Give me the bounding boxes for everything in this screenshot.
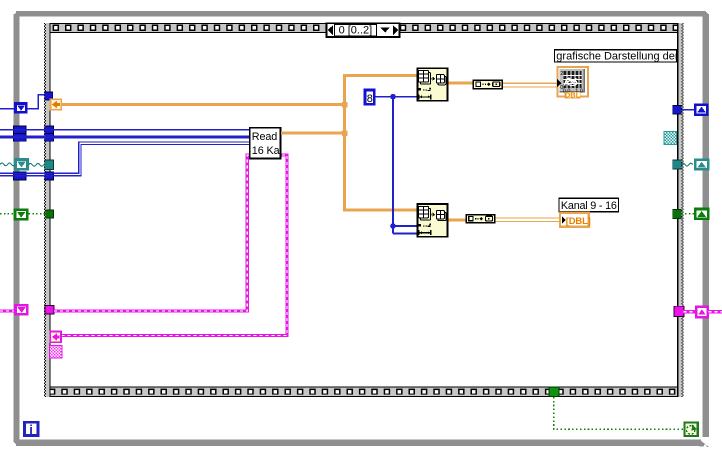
shift register teal left (down arrow): [15, 160, 27, 170]
wire teal wavy tunnel to shift register: [681, 163, 692, 166]
sequence structure bottom border (film strip): [44, 387, 684, 397]
tunnel blue top-left on sequence border: [45, 92, 53, 100]
wire orange double converter 2 to DBL indicator: [496, 217, 560, 219]
tunnel blue pair on loop border: [14, 126, 26, 134]
junction blue upper: [390, 94, 396, 100]
wire blue 8 to Array Subset 1: [376, 96, 417, 98]
svg-text:[DBL]: [DBL]: [566, 216, 591, 227]
wire orange double converter 1 to graph terminal: [503, 82, 557, 84]
svg-text:i: i: [29, 422, 33, 437]
shift register magenta right (up arrow): [696, 307, 707, 318]
tunnel magenta checkered (unwired in this frame): [50, 345, 62, 358]
feedback node orange (left arrow): [50, 99, 61, 110]
junction blue lower: [390, 223, 396, 229]
wire blue from shift register up to tunnel: [27, 95, 45, 109]
shift register green left (down arrow): [15, 210, 27, 219]
tunnel blue right on sequence border: [673, 105, 682, 114]
junction orange at feedback wire: [342, 102, 348, 108]
svg-text:Read: Read: [252, 131, 278, 143]
tunnel teal checkered (unwired in this frame): [664, 131, 677, 144]
wire blue vertical branch: [392, 97, 394, 234]
tunnel blue lower on loop border: [14, 172, 26, 180]
iteration terminal i: [24, 422, 37, 437]
label grafische Darstellung der: [555, 50, 679, 63]
wire green dotted shift register to tunnel: [29, 213, 46, 215]
Array Subset node 1: [417, 68, 447, 101]
tunnel magenta on sequence border: [45, 305, 54, 314]
numeric constant 8: [365, 90, 374, 105]
wire blue into left shift register: [0, 108, 15, 110]
wire magenta dashed tunnel to shift register: [684, 310, 696, 313]
wire blue to Array Subset 2 length input: [393, 233, 417, 235]
feedback node magenta (left arrow): [50, 332, 61, 343]
svg-text:2: 2: [560, 71, 563, 77]
svg-text:16 Ka: 16 Ka: [252, 145, 280, 157]
tunnel teal on sequence border: [45, 160, 54, 169]
wire blue thin A to Read node: [0, 129, 250, 131]
wire orange bus upper elbow to Array Subset 1: [343, 74, 416, 77]
wire green dotted into shift register: [0, 213, 14, 215]
loop condition terminal (continue if true): [685, 423, 698, 436]
svg-text:0 [0..2]: 0 [0..2]: [339, 25, 373, 37]
shift register teal right (up arrow): [695, 160, 708, 170]
Read 16 Ka subVI node: [250, 128, 281, 159]
wire blue thick B to Read node: [0, 135, 250, 138]
wire orange Read output to bus: [281, 132, 346, 135]
wire magenta dashed main run (tunnel to Read node and feedback): [54, 155, 287, 335]
shift register blue right (up arrow): [695, 105, 707, 115]
junction orange at Read wire: [342, 130, 348, 136]
wire orange bus lower elbow to Array Subset 2: [343, 209, 416, 212]
wire green dotted tunnel to shift register: [681, 213, 695, 215]
wire blue tunnel to right shift register: [681, 109, 695, 111]
svg-text:8: 8: [367, 93, 373, 105]
tunnel green on sequence bottom border: [549, 387, 559, 397]
sequence structure right border: [677, 23, 683, 397]
svg-text:Kanal 9 - 16: Kanal 9 - 16: [561, 200, 617, 212]
Array Subset node 2: [417, 204, 447, 237]
sequence structure top border (film strip): [44, 23, 684, 33]
wire teal wavy into shift register: [0, 163, 15, 166]
label Kanal 9 - 16: [559, 198, 619, 212]
wire magenta dashed into shift register: [0, 309, 14, 312]
wire orange Array Subset 1 output: [449, 82, 473, 85]
tunnel teal right on sequence border: [673, 160, 682, 169]
shift register green right (up arrow): [695, 209, 708, 219]
converter node 1: [473, 80, 502, 88]
converter node 2: [466, 215, 495, 223]
wire orange feedback to vertical bus: [62, 103, 346, 106]
svg-text:DBL: DBL: [565, 90, 581, 99]
shift register blue left (down arrow): [15, 104, 26, 113]
tunnel blue pair on sequence border: [45, 126, 54, 134]
indicator array of DBL (Kanal 9 - 16): [560, 213, 591, 227]
tunnel magenta right on sequence border: [674, 306, 684, 316]
wire blue double-line to Read node via elbow: [0, 142, 250, 173]
svg-text:grafische Darstellung der: grafische Darstellung der: [556, 51, 679, 63]
graph indicator terminal (waveform graph, DBL): [557, 67, 588, 100]
sequence structure left border: [44, 23, 51, 397]
wire teal wavy shift register to tunnel: [29, 163, 48, 166]
shift register magenta left (down arrow): [16, 305, 28, 314]
wire magenta dashed exiting right edge: [709, 310, 722, 313]
sequence selector label "0 [0..2]": [327, 23, 400, 37]
tunnel green right on sequence border: [673, 209, 682, 218]
wire green dotted tunnel to loop condition terminal: [554, 397, 684, 430]
tunnel green on sequence border: [46, 210, 54, 218]
tunnel blue lower on sequence border: [45, 172, 54, 180]
wire orange Array Subset 2 output: [449, 219, 466, 222]
wire blue to Array Subset 2 index input: [393, 225, 417, 227]
wire orange vertical bus: [343, 75, 346, 210]
